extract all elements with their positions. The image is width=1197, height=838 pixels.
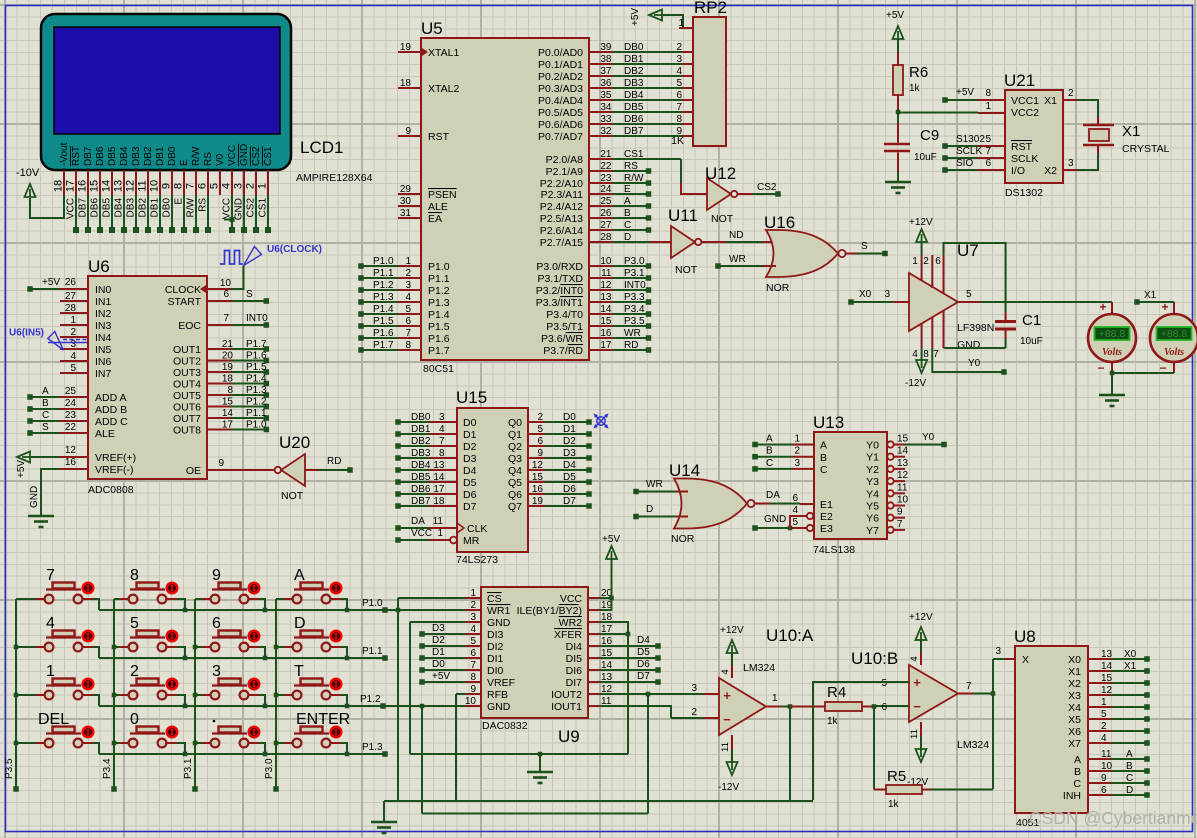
svg-text:U10:A: U10:A	[766, 626, 814, 645]
svg-text:IN2: IN2	[95, 308, 112, 320]
svg-text:E: E	[179, 159, 190, 166]
wire U11 output ND to U16	[702, 230, 776, 242]
wire U6 START S	[207, 289, 269, 304]
label U14	[669, 461, 700, 480]
svg-text:P1.0: P1.0	[246, 420, 267, 431]
latch U15 74LS273 body	[457, 408, 528, 552]
svg-text:9: 9	[218, 458, 224, 469]
label ADC0808	[88, 484, 134, 496]
svg-text:E3: E3	[820, 523, 833, 535]
svg-text:IN4: IN4	[95, 332, 112, 344]
svg-text:R/W: R/W	[186, 197, 197, 217]
svg-text:P3.6/WR: P3.6/WR	[541, 333, 583, 345]
svg-text:P1.3: P1.3	[373, 292, 394, 303]
svg-text:OUT1: OUT1	[173, 344, 201, 356]
svg-text:P1.4: P1.4	[246, 374, 267, 385]
label U6	[88, 257, 110, 276]
svg-text:Y0: Y0	[922, 432, 935, 443]
svg-text:R6: R6	[909, 64, 928, 81]
svg-text:P3.0: P3.0	[264, 758, 275, 779]
svg-text:D6: D6	[637, 659, 650, 670]
label C1 value 10uF	[1020, 336, 1043, 347]
svg-text:12: 12	[532, 460, 544, 471]
svg-text:C: C	[1073, 778, 1081, 790]
svg-text:XFER: XFER	[554, 629, 582, 641]
svg-text:B: B	[42, 398, 49, 409]
svg-text:R/W: R/W	[191, 146, 202, 166]
analog mux U8 4051 body	[1015, 646, 1088, 813]
svg-text:5: 5	[537, 424, 543, 435]
svg-text:NOR: NOR	[671, 533, 695, 545]
svg-text:19: 19	[400, 42, 412, 53]
svg-text:P3.0: P3.0	[624, 256, 645, 267]
svg-text:VCC2: VCC2	[1011, 107, 1039, 119]
svg-text:27: 27	[600, 220, 612, 231]
U6 input pins IN1-IN7	[60, 291, 88, 374]
svg-text:X1: X1	[1122, 123, 1140, 140]
wire U6 OE to U20	[207, 458, 274, 470]
wire S1302 to U21 RST	[942, 134, 1005, 149]
svg-text:NOR: NOR	[766, 282, 790, 294]
svg-text:DB6: DB6	[90, 198, 101, 218]
svg-text:6: 6	[223, 289, 229, 300]
svg-text:9: 9	[212, 567, 221, 584]
keypad column net P3.4	[102, 599, 117, 792]
svg-text:DB5: DB5	[411, 472, 431, 483]
svg-text:6: 6	[212, 615, 221, 632]
svg-text:5: 5	[405, 304, 411, 315]
label R6	[909, 64, 928, 81]
label LM324 U10B	[957, 739, 989, 751]
svg-text:12: 12	[1101, 685, 1113, 696]
svg-text:7: 7	[676, 102, 682, 113]
svg-text:P0.6/AD6: P0.6/AD6	[538, 119, 583, 131]
svg-text:DB4: DB4	[624, 90, 644, 101]
svg-text:D1: D1	[432, 647, 445, 658]
svg-text:13: 13	[113, 180, 125, 192]
wire VCC to U15 MR	[395, 528, 457, 543]
svg-text:DI4: DI4	[566, 641, 583, 653]
svg-text:11: 11	[601, 268, 612, 279]
ADC U6 ADC0808 body	[88, 276, 207, 479]
svg-text:VREF(+): VREF(+)	[95, 452, 136, 464]
svg-text:2: 2	[130, 663, 139, 680]
svg-text:4: 4	[1101, 733, 1107, 744]
label R5 value 1k	[888, 799, 900, 810]
svg-text:P1.0: P1.0	[373, 256, 394, 267]
svg-text:OUT3: OUT3	[173, 367, 201, 379]
svg-text:-12V: -12V	[905, 378, 926, 389]
svg-text:P1.2: P1.2	[246, 397, 267, 408]
svg-text:7: 7	[897, 519, 903, 530]
svg-text:3: 3	[470, 612, 476, 623]
svg-text:7: 7	[405, 328, 411, 339]
label 4051	[1016, 817, 1040, 829]
svg-text:I/O: I/O	[1011, 165, 1025, 177]
svg-text:EA: EA	[428, 213, 442, 225]
svg-text:4: 4	[912, 349, 918, 360]
svg-text:P1.7: P1.7	[373, 340, 394, 351]
svg-text:X1: X1	[1144, 290, 1157, 301]
power -10V on LCD -Vout	[16, 167, 235, 222]
svg-text:IN1: IN1	[95, 296, 112, 308]
LCD display LCD1 AMPIRE128X64	[41, 14, 291, 170]
wire U9 GND3	[410, 621, 466, 623]
svg-text:DB3: DB3	[131, 146, 142, 166]
svg-text:19: 19	[532, 496, 544, 507]
svg-text:Y0: Y0	[866, 440, 879, 452]
svg-text:EOC: EOC	[178, 320, 201, 332]
svg-text:CSDN @Cybertianmo: CSDN @Cybertianmo	[1029, 808, 1197, 828]
svg-text:C: C	[42, 410, 49, 421]
svg-text:D3: D3	[463, 453, 477, 465]
svg-text:D3: D3	[563, 448, 576, 459]
svg-text:P2.5/A13: P2.5/A13	[540, 213, 583, 225]
svg-text:7: 7	[185, 183, 197, 189]
svg-text:16: 16	[65, 457, 77, 468]
svg-text:7: 7	[966, 681, 972, 692]
svg-text:28: 28	[65, 303, 77, 314]
svg-text:8: 8	[676, 114, 682, 125]
svg-text:RST: RST	[1011, 141, 1033, 153]
svg-text:D0: D0	[563, 412, 576, 423]
svg-text:4: 4	[792, 505, 798, 516]
svg-text:13: 13	[1101, 649, 1113, 660]
svg-text:Q7: Q7	[508, 501, 522, 513]
svg-text:11: 11	[897, 482, 908, 493]
wire DA to U15 CLK	[395, 516, 457, 531]
svg-text:1: 1	[437, 528, 443, 539]
svg-text:38: 38	[600, 54, 612, 65]
resistor pack RP2 body	[693, 17, 726, 146]
svg-text:D7: D7	[463, 501, 477, 513]
svg-text:X2: X2	[1044, 165, 1057, 177]
svg-text:9: 9	[405, 126, 411, 137]
svg-text:P1.7: P1.7	[246, 339, 267, 350]
svg-text:12: 12	[125, 180, 137, 192]
svg-text:4: 4	[676, 66, 682, 77]
wire U16 output S	[846, 241, 888, 256]
svg-text:P1.4: P1.4	[428, 309, 450, 321]
svg-text:B: B	[766, 446, 773, 457]
U8 X0-X7 channel pins	[1088, 649, 1150, 746]
svg-text:4: 4	[439, 424, 445, 435]
svg-text:Volts: Volts	[1102, 347, 1122, 358]
svg-text:INT0: INT0	[246, 313, 268, 324]
button A	[276, 567, 347, 610]
probe U6(IN5)	[9, 328, 87, 351]
svg-text:-12V: -12V	[718, 782, 739, 793]
svg-text:WR: WR	[646, 479, 663, 490]
svg-text:ND: ND	[729, 230, 743, 241]
svg-text:U8: U8	[1014, 627, 1036, 646]
svg-text:DS1302: DS1302	[1005, 187, 1043, 199]
svg-text:IN6: IN6	[95, 356, 112, 368]
svg-text:X0: X0	[1124, 649, 1137, 660]
svg-text:1k: 1k	[909, 83, 921, 94]
svg-text:3: 3	[70, 339, 76, 350]
label 80C51	[423, 363, 454, 375]
svg-text:D7: D7	[563, 496, 576, 507]
RTC U21 DS1302 body	[1005, 90, 1063, 183]
svg-text:17: 17	[600, 340, 612, 351]
svg-text:ALE: ALE	[428, 201, 448, 213]
label LM324 U10A	[743, 662, 775, 674]
svg-text:-10V: -10V	[16, 167, 40, 179]
svg-text:ADD C: ADD C	[95, 416, 128, 428]
svg-text:D4: D4	[637, 635, 650, 646]
svg-text:−: −	[1097, 361, 1104, 375]
power -12V to U10:B pin11	[907, 722, 928, 788]
power +12V to U7	[909, 217, 933, 255]
wire IOUT2 riser to lower rail	[647, 694, 649, 814]
svg-text:19: 19	[222, 362, 234, 373]
keypad column net P3.0	[264, 599, 279, 792]
svg-text:32: 32	[600, 126, 612, 137]
svg-text:12: 12	[897, 470, 909, 481]
svg-text:6: 6	[881, 702, 887, 713]
svg-text:2: 2	[470, 600, 476, 611]
svg-text:23: 23	[65, 410, 77, 421]
U9 right pin stubs 11-20	[588, 588, 613, 707]
svg-text:DB2: DB2	[143, 146, 154, 166]
U13 E2 E3 pins tied to GND	[752, 505, 813, 531]
svg-text:P1.0: P1.0	[362, 598, 383, 609]
svg-text:CRYSTAL: CRYSTAL	[1122, 143, 1170, 155]
wire U10:A output pin1	[766, 693, 792, 801]
svg-text:1: 1	[678, 18, 684, 29]
svg-text:DB3: DB3	[624, 78, 644, 89]
svg-text:+: +	[1099, 300, 1106, 314]
button 9	[195, 567, 265, 610]
label U13	[813, 413, 844, 432]
voltmeter 2 Volts	[1150, 300, 1197, 375]
svg-text:PSEN: PSEN	[428, 189, 457, 201]
svg-text:0: 0	[130, 711, 139, 728]
svg-text:2: 2	[245, 183, 257, 189]
svg-text:X0: X0	[859, 289, 872, 300]
wire +5V to U21 VCC1	[942, 87, 1005, 103]
svg-text:7: 7	[985, 146, 991, 157]
svg-text:18: 18	[222, 374, 234, 385]
svg-text:13: 13	[897, 458, 909, 469]
svg-text:8: 8	[130, 567, 139, 584]
svg-text:3: 3	[676, 54, 682, 65]
svg-text:U14: U14	[669, 461, 700, 480]
power -12V to U10:A pin11	[718, 735, 739, 793]
svg-text:IOUT2: IOUT2	[551, 689, 582, 701]
svg-text:7: 7	[933, 349, 939, 360]
svg-text:X1: X1	[1068, 666, 1081, 678]
svg-text:VCC: VCC	[560, 593, 583, 605]
wire RD into U20	[305, 456, 353, 473]
svg-text:9: 9	[897, 507, 903, 518]
svg-text:X5: X5	[1068, 714, 1081, 726]
svg-text:ADD B: ADD B	[95, 404, 127, 416]
svg-text:RP2: RP2	[694, 0, 727, 17]
label R6 value 1k	[909, 83, 921, 94]
svg-text:DB0: DB0	[624, 42, 644, 53]
svg-text:+5V: +5V	[16, 460, 27, 478]
svg-text:6: 6	[985, 158, 991, 169]
svg-text:P1.6: P1.6	[373, 328, 394, 339]
svg-text:WR1: WR1	[487, 605, 510, 617]
svg-text:IN5: IN5	[95, 344, 112, 356]
label C9 value 10uF	[914, 152, 937, 163]
label GND pin7	[957, 339, 981, 351]
svg-text:DB6: DB6	[411, 484, 431, 495]
svg-text:P2.0/A8: P2.0/A8	[546, 154, 584, 166]
svg-text:P1.2: P1.2	[428, 285, 450, 297]
wire U9 WR1 P1.0 bus junction	[385, 608, 466, 613]
wire R6 C9 node to U21 VCC2	[898, 101, 1005, 113]
svg-text:16: 16	[600, 328, 612, 339]
resistor R4 1k	[790, 702, 876, 711]
wires D3 D2 D1 D0 +5V to U9	[419, 623, 466, 685]
wire U7 pin8 Y0	[932, 348, 1006, 375]
svg-text:IN0: IN0	[95, 284, 112, 296]
wire U9 RFB to feedback rail	[456, 694, 466, 801]
svg-text:13: 13	[600, 292, 612, 303]
svg-text:D: D	[294, 615, 306, 632]
svg-text:WR: WR	[729, 254, 746, 265]
svg-text:1: 1	[772, 693, 778, 704]
svg-text:CS1: CS1	[258, 198, 269, 218]
svg-text:17: 17	[433, 484, 445, 495]
svg-text:P1.2: P1.2	[360, 694, 381, 705]
svg-text:NOT: NOT	[281, 490, 304, 502]
svg-text:D0: D0	[463, 417, 477, 429]
svg-text:A: A	[766, 434, 773, 445]
svg-text:OUT7: OUT7	[173, 413, 201, 425]
svg-text:+5V: +5V	[956, 87, 974, 98]
power +5V to U9 VCC ILE	[599, 534, 620, 610]
wire R4 to U10:B inverting	[874, 705, 909, 707]
svg-text:E2: E2	[820, 511, 833, 523]
voltmeter 1 Volts	[1088, 300, 1136, 375]
label 74LS138	[813, 544, 855, 556]
svg-text:11: 11	[720, 742, 731, 752]
wire U6 CLOCK pin	[207, 266, 244, 289]
svg-text:E: E	[174, 198, 185, 205]
svg-text:Q5: Q5	[508, 477, 522, 489]
keypad row net P1.3	[99, 742, 388, 757]
svg-text:6: 6	[405, 316, 411, 327]
svg-text:14: 14	[1101, 661, 1113, 672]
wire CS1 net to U12 input	[681, 159, 707, 194]
svg-text:3: 3	[212, 663, 221, 680]
svg-text:27: 27	[65, 291, 77, 302]
svg-text:P3.4: P3.4	[102, 758, 113, 779]
svg-text:DI5: DI5	[566, 653, 583, 665]
svg-text:39: 39	[600, 42, 612, 53]
svg-text:ILE(BY1/BY2): ILE(BY1/BY2)	[517, 605, 582, 617]
svg-text:D6: D6	[563, 484, 576, 495]
svg-text:P1.5: P1.5	[428, 321, 450, 333]
U10:A input pin numbers	[691, 683, 697, 718]
svg-text:3: 3	[1068, 158, 1074, 169]
svg-text:1: 1	[912, 256, 918, 267]
svg-text:DB1: DB1	[411, 424, 431, 435]
svg-text:20: 20	[222, 351, 234, 362]
nor gate U14	[674, 479, 755, 529]
svg-text:U12: U12	[705, 164, 736, 183]
svg-text:P3.5: P3.5	[4, 758, 15, 779]
svg-text:18: 18	[433, 496, 445, 507]
svg-text:+12V: +12V	[909, 612, 933, 623]
label X1	[1122, 123, 1140, 140]
svg-text:DB0: DB0	[411, 412, 431, 423]
svg-text:A: A	[294, 567, 305, 584]
U15 Q0-Q7 output wires D0-D7	[528, 412, 592, 509]
svg-text:D5: D5	[637, 647, 650, 658]
svg-text:DB3: DB3	[126, 198, 137, 218]
svg-text:DEL: DEL	[38, 711, 69, 728]
power +5V to U6 VREF(+)	[16, 445, 88, 478]
svg-text:DB5: DB5	[102, 198, 113, 218]
svg-text:P2.7/A15: P2.7/A15	[540, 237, 583, 249]
svg-text:X1: X1	[1124, 661, 1137, 672]
ground under voltmeters	[1099, 371, 1174, 406]
svg-text:+12V: +12V	[909, 217, 933, 228]
U7 bottom pins 4 8 7	[912, 311, 943, 360]
button ENTER	[276, 711, 350, 754]
wire U10:B output pin7	[958, 681, 995, 696]
svg-text:DB5: DB5	[624, 102, 644, 113]
svg-text:DI7: DI7	[566, 677, 583, 689]
svg-text:30: 30	[400, 196, 412, 207]
svg-text:DI6: DI6	[566, 665, 583, 677]
wire D to U14 input	[633, 504, 688, 519]
label LCD1	[300, 138, 343, 157]
label NOR	[766, 282, 790, 294]
svg-text:U9: U9	[558, 727, 580, 746]
svg-text:33: 33	[600, 114, 612, 125]
button 2	[114, 663, 185, 706]
U10:B input pin numbers	[881, 678, 887, 713]
svg-text:1k: 1k	[827, 716, 839, 727]
power +5V above R6	[886, 10, 904, 65]
svg-text:6: 6	[676, 90, 682, 101]
svg-text:RST: RST	[428, 131, 450, 143]
svg-text:XTAL1: XTAL1	[428, 47, 459, 59]
label U10:A	[766, 626, 814, 645]
svg-text:U6: U6	[88, 257, 110, 276]
svg-text:P2.1/A9: P2.1/A9	[546, 166, 584, 178]
svg-text:V0: V0	[215, 153, 226, 166]
label NOT	[675, 264, 698, 276]
svg-text:8: 8	[470, 672, 476, 683]
wire U9 GND10	[385, 704, 466, 709]
svg-text:25: 25	[600, 196, 612, 207]
svg-text:OUT6: OUT6	[173, 402, 201, 414]
button D	[276, 615, 347, 658]
svg-text:A: A	[820, 440, 827, 452]
label R5	[887, 768, 906, 785]
label U11	[668, 206, 698, 225]
svg-text:U13: U13	[813, 413, 844, 432]
svg-text:DA: DA	[411, 516, 425, 527]
svg-text:8: 8	[923, 349, 929, 360]
svg-text:A: A	[42, 386, 49, 397]
button 6	[195, 615, 265, 658]
svg-text:1: 1	[1101, 697, 1107, 708]
svg-text:C: C	[766, 458, 773, 469]
svg-text:24: 24	[65, 398, 77, 409]
svg-text:25: 25	[65, 386, 77, 397]
wire SIO to U21 I/O	[942, 158, 1005, 173]
svg-text:P3.2/INT0: P3.2/INT0	[536, 285, 583, 297]
